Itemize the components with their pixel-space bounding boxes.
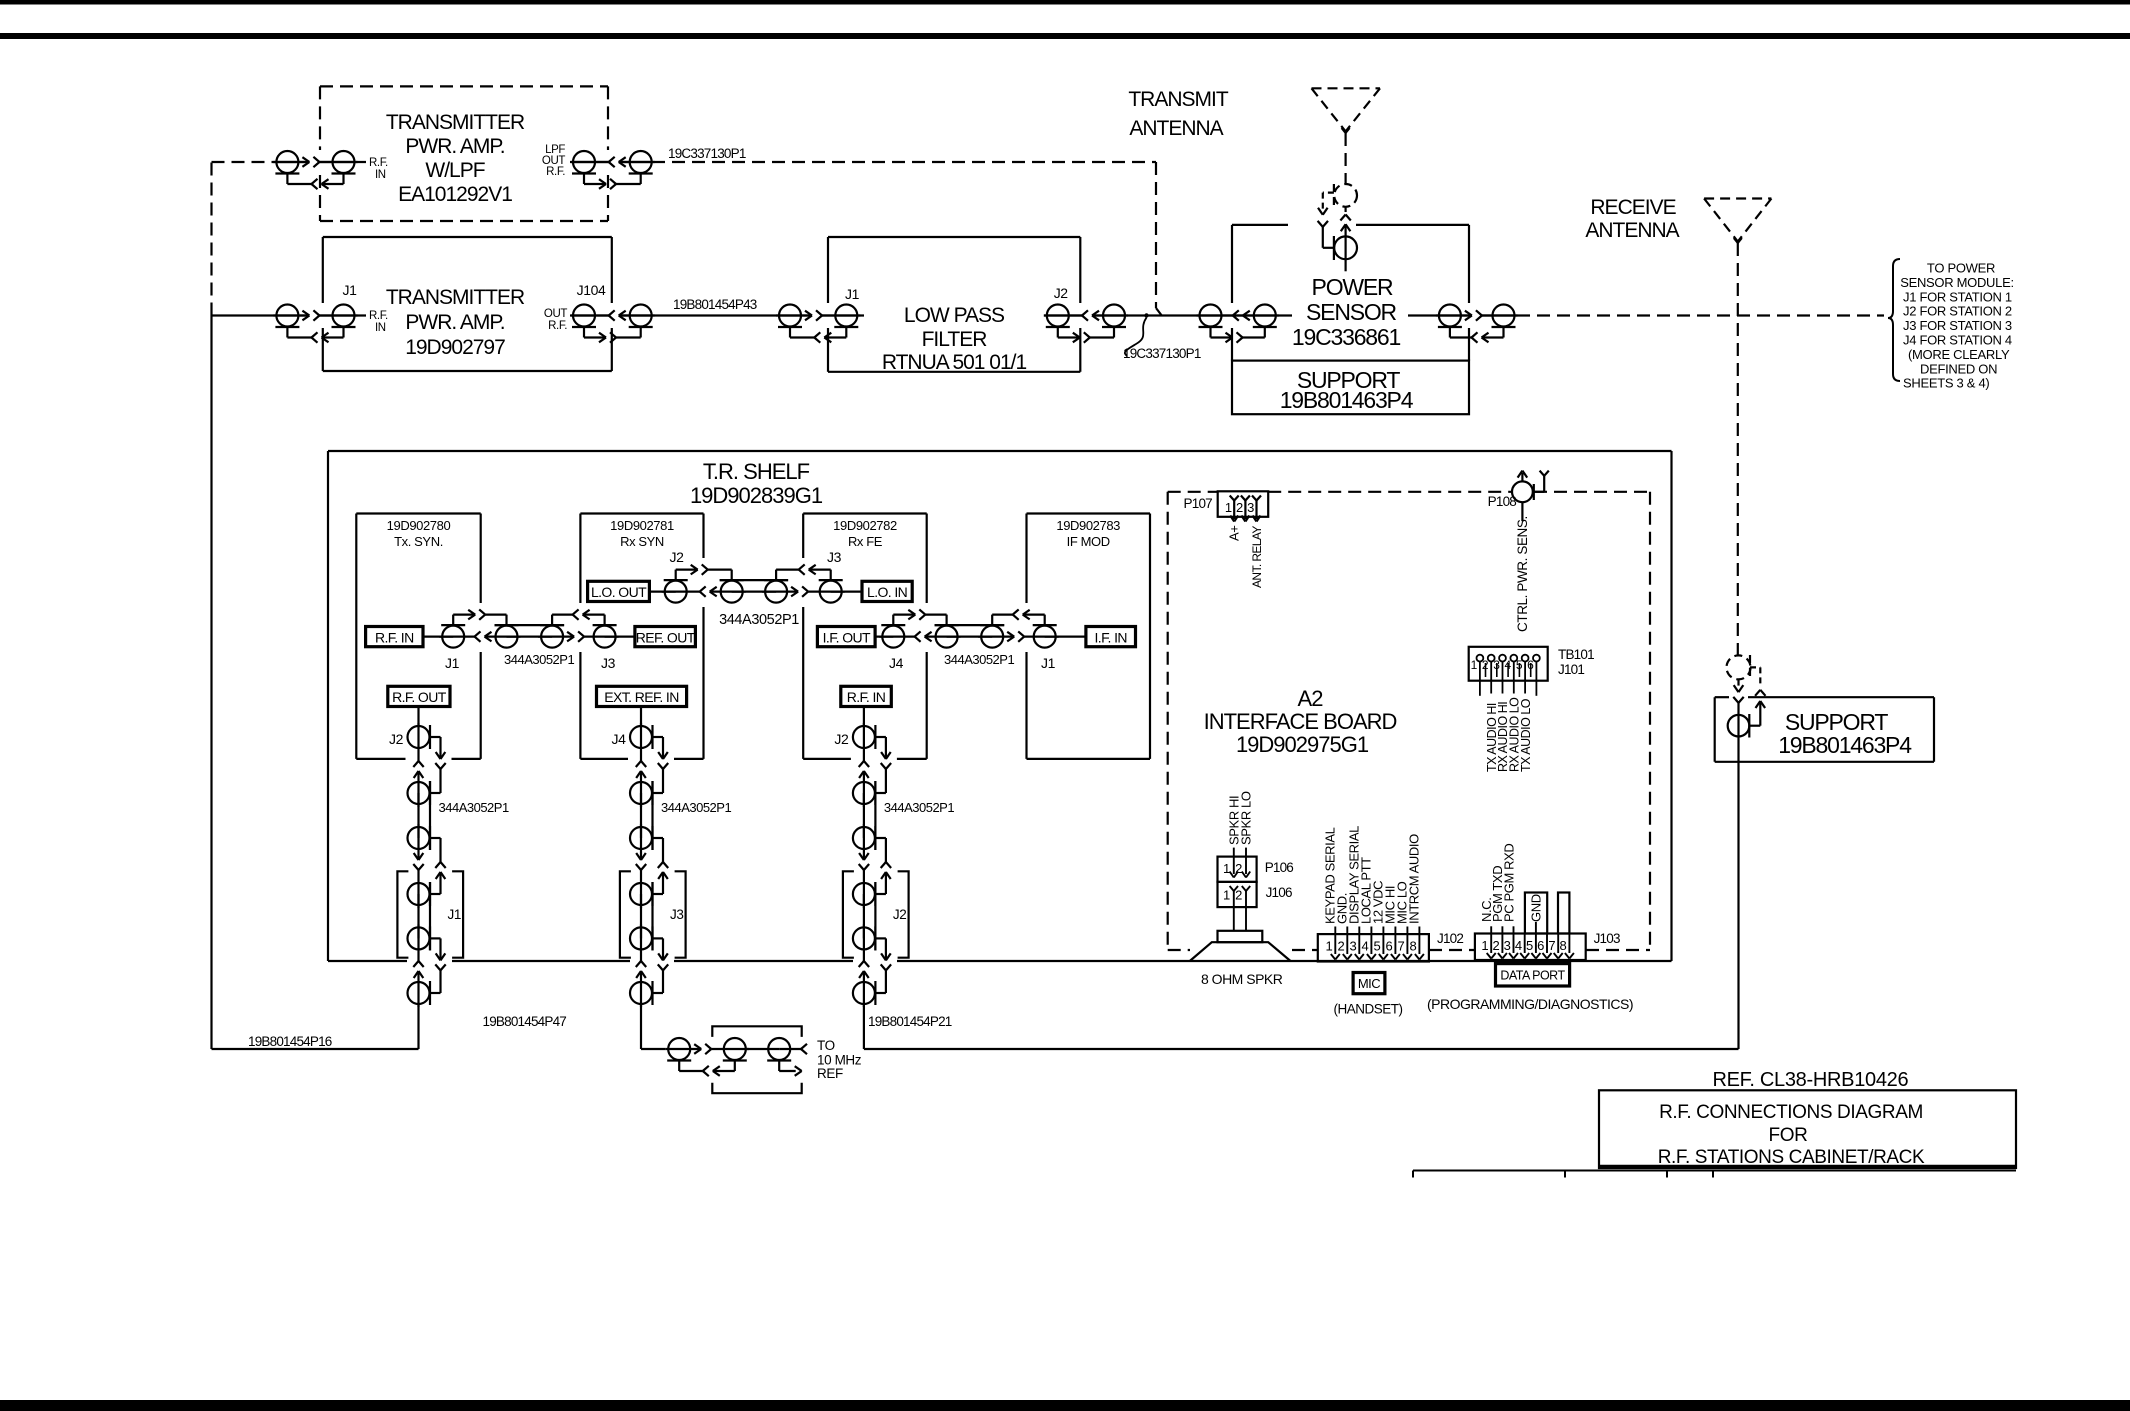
label box L.O. OUT: [588, 581, 650, 601]
connector dashed plug above support: [1727, 655, 1751, 679]
svg-text:19B801454P47: 19B801454P47: [483, 1014, 567, 1029]
svg-text:6: 6: [1386, 939, 1393, 954]
svg-text:R.F. OUT: R.F. OUT: [392, 689, 447, 705]
antenna symbol transmit (dashed): [1312, 87, 1381, 89]
svg-text:2: 2: [1337, 939, 1344, 954]
brace for TO POWER SENSOR MODULE note: [1888, 259, 1900, 381]
connector pair J3 Rx FE LO in: [765, 581, 787, 603]
connector antenna plug (dashed circle): [1334, 184, 1357, 207]
cable 19B801454P43: [619, 314, 812, 316]
svg-text:6: 6: [1537, 938, 1544, 953]
svg-text:R.F. IN: R.F. IN: [847, 689, 886, 705]
svg-text:19B801463P4: 19B801463P4: [1778, 732, 1912, 758]
svg-text:J106: J106: [1266, 885, 1292, 900]
svg-text:1: 1: [1481, 938, 1488, 953]
svg-text:SENSOR: SENSOR: [1306, 299, 1397, 325]
svg-text:TRANSMITTER: TRANSMITTER: [386, 286, 525, 309]
svg-text:REF. OUT: REF. OUT: [636, 629, 696, 645]
bottom border bar: [0, 1400, 2130, 1411]
svg-text:INTRCM AUDIO: INTRCM AUDIO: [1407, 834, 1422, 924]
vertical pair module jack to cable: [630, 782, 652, 804]
svg-text:SENSOR MODULE:: SENSOR MODULE:: [1900, 275, 2014, 290]
wire to external 10MHz plug: [779, 1048, 801, 1050]
wire dashed feed to R.F. IN of dashed box: [212, 161, 278, 163]
svg-text:L.O. OUT: L.O. OUT: [591, 584, 647, 600]
svg-text:J2: J2: [1054, 285, 1069, 301]
bracket 10MHz feed-through top: [712, 1026, 801, 1037]
svg-text:W/LPF: W/LPF: [425, 159, 484, 182]
wire dashed antenna feed: [1344, 133, 1346, 184]
svg-text:344A3052P1: 344A3052P1: [884, 800, 954, 815]
wire LPF J2 to output pair: [1044, 314, 1082, 316]
svg-text:4: 4: [1515, 938, 1522, 953]
svg-text:J4: J4: [612, 731, 627, 747]
box T.R. SHELF 19D902839G1: [328, 450, 1672, 452]
connector pair power sensor input: [1254, 305, 1276, 327]
svg-text:P106: P106: [1265, 860, 1294, 875]
connector J102: [1318, 934, 1429, 961]
wire dashed receive antenna feed: [1737, 243, 1739, 655]
empty shell box pin7: [1558, 893, 1569, 934]
connector power sensor antenna jack: [1334, 236, 1357, 259]
arrow into power sensor connector: [1341, 224, 1346, 231]
svg-text:19C337130P1: 19C337130P1: [668, 146, 746, 161]
return arrow from support jack: [1759, 703, 1761, 726]
svg-text:Tx. SYN.: Tx. SYN.: [394, 534, 443, 549]
frame line under title block: [1413, 1170, 2016, 1172]
svg-text:2: 2: [1235, 861, 1242, 876]
connector pair J104 transmitter output: [630, 305, 652, 327]
vertical pair cable to shelf feedthrough: [408, 827, 430, 849]
cable feed-through internal: [863, 894, 865, 938]
svg-text:A2: A2: [1298, 686, 1324, 711]
svg-text:19D902782: 19D902782: [833, 518, 897, 533]
wire power sensor internal right: [1408, 314, 1472, 316]
connector J106: [1218, 882, 1257, 907]
svg-text:TB101: TB101: [1558, 647, 1594, 662]
svg-text:7: 7: [1398, 939, 1405, 954]
svg-text:R.F.: R.F.: [369, 310, 388, 322]
svg-text:J4 FOR STATION 4: J4 FOR STATION 4: [1903, 333, 2012, 348]
module box 19D902782: [803, 512, 927, 514]
connector P106: [1218, 857, 1257, 882]
cable 344A3052P1 vertical: [863, 793, 865, 838]
box TRANSMITTER PWR. AMP. 19D902797: [323, 236, 612, 238]
svg-text:19D902781: 19D902781: [610, 518, 674, 533]
svg-text:J2: J2: [893, 907, 906, 922]
connector pair J1 Tx SYN: [496, 626, 518, 648]
cable 344A3052P1 vertical: [417, 793, 419, 838]
svg-text:CTRL. PWR. SENS.: CTRL. PWR. SENS.: [1515, 516, 1530, 632]
connector pair J1 transmitter input: [276, 305, 298, 327]
svg-text:19B801463P4: 19B801463P4: [1280, 387, 1414, 413]
cable 344A3052P1 (LO): [732, 590, 776, 592]
connector pair 10MHz cable to feed-through: [668, 1038, 690, 1060]
svg-text:TO POWER: TO POWER: [1927, 261, 1995, 276]
svg-text:J1: J1: [445, 655, 460, 671]
svg-text:EA101292V1: EA101292V1: [398, 183, 512, 206]
wire R.F. IN to J1: [423, 635, 453, 637]
svg-text:R.F. STATIONS CABINET/RACK: R.F. STATIONS CABINET/RACK: [1658, 1147, 1925, 1168]
wire label box to module connector: [640, 707, 642, 727]
svg-text:3: 3: [1349, 939, 1356, 954]
svg-text:8: 8: [1560, 938, 1567, 953]
wire module3 run to support riser: [864, 1048, 1739, 1050]
svg-text:TX AUDIO LO: TX AUDIO LO: [1519, 698, 1533, 772]
svg-text:GND: GND: [1529, 894, 1544, 922]
box POWER SENSOR 19C336861: [1232, 224, 1288, 226]
vertical pair module jack to cable: [408, 782, 430, 804]
svg-text:FOR: FOR: [1769, 1125, 1808, 1146]
svg-text:INTERFACE BOARD: INTERFACE BOARD: [1204, 709, 1397, 734]
GND shell box: [1525, 893, 1547, 934]
cable feed-through internal: [640, 894, 642, 938]
svg-text:2: 2: [1236, 500, 1243, 515]
svg-text:R.F.: R.F.: [369, 157, 388, 169]
connector pair J4 Rx FE: [936, 626, 958, 648]
svg-text:I.F. OUT: I.F. OUT: [823, 629, 871, 645]
svg-text:J1: J1: [1041, 655, 1056, 671]
connector J103: [1475, 934, 1586, 961]
wire external cable down: [863, 1004, 865, 1049]
connector pair R.F. IN dashed box: [277, 161, 309, 163]
svg-text:LOW PASS: LOW PASS: [904, 304, 1005, 327]
svg-text:SHEETS 3 & 4): SHEETS 3 & 4): [1903, 376, 1989, 391]
svg-text:IF MOD: IF MOD: [1067, 534, 1110, 549]
label box L.O. IN: [862, 581, 912, 601]
svg-text:5: 5: [1374, 939, 1381, 954]
header rule bar: [0, 33, 2130, 39]
wire main feed to transmitter R.F. IN: [212, 314, 310, 316]
connector pair J2 Rx SYN LO out: [721, 581, 743, 603]
svg-text:ANTENNA: ANTENNA: [1585, 219, 1679, 242]
svg-text:19D902839G1: 19D902839G1: [690, 483, 823, 508]
wire external cable down: [417, 1004, 419, 1049]
wire J3 to REF. OUT: [605, 635, 635, 637]
dashed box A2 INTERFACE BOARD: [1168, 491, 1218, 493]
svg-text:R.F. CONNECTIONS DIAGRAM: R.F. CONNECTIONS DIAGRAM: [1659, 1102, 1923, 1123]
module box 19D902783: [1027, 512, 1151, 514]
svg-text:ANT. RELAY: ANT. RELAY: [1250, 526, 1264, 588]
svg-text:REF: REF: [817, 1066, 843, 1081]
svg-text:3: 3: [1504, 938, 1511, 953]
svg-text:SPKR LO: SPKR LO: [1239, 791, 1254, 845]
svg-text:1: 1: [1325, 939, 1332, 954]
svg-text:R.F.: R.F.: [548, 320, 567, 332]
svg-text:OUT: OUT: [544, 308, 567, 320]
svg-text:19D902797: 19D902797: [405, 336, 505, 359]
svg-text:MIC: MIC: [1358, 976, 1380, 991]
wire dashed drop to LPF output junction: [1155, 162, 1157, 308]
svg-text:1: 1: [1223, 888, 1230, 903]
mating chevron on antenna main line: [1344, 207, 1346, 212]
svg-text:TRANSMIT: TRANSMIT: [1128, 88, 1229, 111]
svg-text:2: 2: [1235, 888, 1242, 903]
svg-text:2: 2: [1493, 938, 1500, 953]
connector pair J3 Rx SYN ref: [541, 626, 563, 648]
wire external cable down: [640, 1004, 642, 1049]
cable 344A3052P1 (row 1): [507, 635, 553, 637]
vertical pair cable to shelf feedthrough: [853, 827, 875, 849]
svg-text:ANTENNA: ANTENNA: [1129, 117, 1223, 140]
wire J1 to I.F. IN: [1045, 635, 1086, 637]
svg-text:1: 1: [1225, 500, 1232, 515]
connector pair J1 low pass filter input: [779, 305, 801, 327]
label box R.F. IN (module output): [841, 686, 892, 706]
svg-text:19D902780: 19D902780: [387, 518, 451, 533]
svg-text:J2: J2: [670, 549, 685, 565]
svg-text:J1: J1: [448, 907, 461, 922]
svg-text:J103: J103: [1594, 931, 1620, 946]
svg-text:IN: IN: [375, 322, 386, 334]
svg-text:19B801454P43: 19B801454P43: [673, 297, 757, 312]
connector pair J1 IF MOD: [981, 626, 1003, 648]
module box 19D902780: [356, 512, 480, 514]
top border bar: [0, 0, 2130, 5]
svg-text:J1: J1: [343, 282, 358, 298]
connector pair J2 low pass filter output: [1103, 305, 1125, 327]
svg-text:J1 FOR STATION 1: J1 FOR STATION 1: [1903, 289, 2012, 304]
svg-text:8: 8: [1410, 939, 1417, 954]
wire module2 run to 10MHz: [641, 1048, 665, 1050]
svg-text:I.F. IN: I.F. IN: [1095, 629, 1127, 645]
bracket shelf feed-through connector: [397, 871, 408, 957]
bracket 10MHz feed-through bottom: [712, 1083, 801, 1094]
connector P108: [1512, 481, 1533, 502]
wire label box to module connector: [863, 707, 865, 727]
svg-text:J4: J4: [889, 655, 904, 671]
label box REF. OUT: [635, 627, 696, 647]
connector P107 header: [1218, 491, 1269, 517]
svg-text:PWR. AMP.: PWR. AMP.: [405, 311, 504, 334]
wire dashed 19C337130P1 run: [652, 161, 1156, 163]
label box R.F. IN (Tx SYN): [366, 627, 423, 647]
wire J3 to L.O. IN: [831, 590, 862, 592]
box LOW PASS FILTER RTNUA 501 01/1: [828, 236, 1080, 238]
module box 19D902781: [580, 512, 703, 514]
svg-text:J3: J3: [827, 549, 842, 565]
cable 344A3052P1 vertical: [640, 793, 642, 838]
svg-text:J2: J2: [389, 731, 404, 747]
svg-text:(HANDSET): (HANDSET): [1334, 1002, 1403, 1017]
vertical pair module jack to cable: [853, 782, 875, 804]
wire dashed to receive antenna line: [1517, 314, 1884, 316]
label box R.F. OUT (module output): [388, 686, 450, 706]
wire L.O. OUT to J2: [649, 590, 675, 592]
svg-text:RECEIVE: RECEIVE: [1590, 196, 1676, 219]
wire 19B801454P16 loop: [212, 1048, 419, 1050]
cable between 10MHz feedthrough connectors: [745, 1048, 779, 1050]
vertical pair shelf bottom jack to external cable: [408, 982, 430, 1004]
svg-text:19D902975G1: 19D902975G1: [1236, 732, 1369, 757]
svg-text:19B801454P16: 19B801454P16: [248, 1034, 332, 1049]
bracket shelf feed-through connector: [620, 871, 631, 957]
svg-text:7: 7: [1548, 938, 1555, 953]
box DATA PORT: [1496, 964, 1570, 986]
wire I.F. OUT to J4: [875, 635, 893, 637]
svg-text:344A3052P1: 344A3052P1: [439, 800, 509, 815]
svg-text:P107: P107: [1184, 496, 1213, 511]
svg-text:344A3052P1: 344A3052P1: [504, 652, 574, 667]
cable 19C337130P1 to power sensor: [1092, 314, 1243, 316]
svg-text:P108: P108: [1488, 494, 1517, 509]
antenna symbol receive (dashed): [1704, 197, 1771, 199]
svg-text:J3: J3: [670, 907, 683, 922]
dashed box TRANSMITTER PWR. AMP. W/LPF EA101292V1: [320, 85, 608, 87]
wire label box to module connector: [417, 707, 419, 727]
svg-text:344A3052P1: 344A3052P1: [944, 652, 1014, 667]
svg-text:19D902783: 19D902783: [1056, 518, 1120, 533]
return hook H to external: [779, 1070, 796, 1072]
svg-text:IN: IN: [375, 169, 386, 181]
svg-text:1: 1: [1223, 861, 1230, 876]
cable 344A3052P1 (IF row): [947, 635, 993, 637]
box MIC: [1353, 973, 1385, 994]
connector support jack circle: [1728, 715, 1750, 737]
svg-text:REF. CL38-HRB10426: REF. CL38-HRB10426: [1713, 1069, 1909, 1091]
svg-text:Rx FE: Rx FE: [848, 534, 883, 549]
connector pair LPF OUT dashed box: [630, 151, 652, 173]
vertical pair shelf bottom jack to external cable: [853, 982, 875, 1004]
svg-text:TRANSMITTER: TRANSMITTER: [386, 111, 525, 134]
svg-text:344A3052P1: 344A3052P1: [719, 612, 799, 628]
svg-text:R.F.: R.F.: [546, 166, 565, 178]
svg-text:19B801454P21: 19B801454P21: [868, 1014, 952, 1029]
svg-text:19C337130P1: 19C337130P1: [1123, 346, 1201, 361]
svg-text:J3 FOR STATION 3: J3 FOR STATION 3: [1903, 318, 2012, 333]
svg-text:4: 4: [1362, 939, 1369, 954]
svg-text:DEFINED ON: DEFINED ON: [1920, 361, 1997, 376]
title box: [1599, 1090, 2016, 1168]
label box I.F. IN: [1086, 627, 1136, 647]
box SUPPORT 19B801463P4 (left): [1232, 361, 1469, 415]
svg-text:Rx SYN: Rx SYN: [620, 534, 664, 549]
svg-text:8 OHM SPKR: 8 OHM SPKR: [1201, 971, 1283, 987]
receptacle chevron for antenna return: [1318, 221, 1323, 227]
label box EXT. REF. IN (module output): [597, 686, 687, 706]
wire dashed left riser to EA101292V1: [210, 162, 212, 316]
svg-text:(MORE CLEARLY: (MORE CLEARLY: [1908, 347, 2010, 362]
bracket shelf feed-through connector: [843, 871, 854, 957]
arrow dashed into support: [1737, 680, 1739, 687]
connector TB101 J101: [1469, 647, 1548, 681]
svg-text:RTNUA 501 01/1: RTNUA 501 01/1: [882, 351, 1027, 374]
svg-text:R.F. IN: R.F. IN: [375, 629, 414, 645]
svg-text:T.R. SHELF: T.R. SHELF: [703, 459, 810, 484]
cable feed-through internal: [417, 894, 419, 938]
svg-text:A+: A+: [1227, 526, 1242, 541]
svg-text:DATA PORT: DATA PORT: [1500, 969, 1565, 983]
svg-text:1: 1: [1471, 658, 1478, 672]
svg-text:TO: TO: [817, 1038, 835, 1053]
svg-text:L.O. IN: L.O. IN: [867, 584, 907, 600]
svg-text:J104: J104: [577, 282, 606, 298]
feed-through connector H: [768, 1038, 790, 1060]
svg-text:5: 5: [1526, 938, 1533, 953]
svg-text:19C336861: 19C336861: [1292, 324, 1401, 350]
vertical pair shelf bottom jack to external cable: [630, 982, 652, 1004]
svg-text:J2: J2: [834, 731, 849, 747]
junction dot: [1144, 313, 1148, 317]
leader curve to junction: [1125, 318, 1147, 357]
vertical pair cable to shelf feedthrough: [630, 827, 652, 849]
svg-text:J102: J102: [1437, 931, 1463, 946]
receptacle chevron support jack: [1733, 697, 1738, 703]
svg-text:J2 FOR STATION 2: J2 FOR STATION 2: [1903, 304, 2012, 319]
svg-text:3: 3: [1247, 500, 1254, 515]
label box I.F. OUT: [817, 627, 875, 647]
svg-text:J101: J101: [1558, 662, 1584, 677]
svg-text:344A3052P1: 344A3052P1: [661, 800, 731, 815]
speaker symbol: [1218, 931, 1263, 942]
svg-text:PWR. AMP.: PWR. AMP.: [405, 135, 504, 158]
svg-text:J1: J1: [845, 286, 860, 302]
connector pair power sensor output: [1439, 305, 1461, 327]
svg-text:EXT. REF. IN: EXT. REF. IN: [604, 689, 678, 705]
box SUPPORT 19B801463P4 (right): [1715, 696, 1729, 698]
svg-text:(PROGRAMMING/DIAGNOSTICS): (PROGRAMMING/DIAGNOSTICS): [1427, 996, 1633, 1012]
svg-text:FILTER: FILTER: [922, 328, 988, 351]
svg-text:PC PGM RXD: PC PGM RXD: [1501, 844, 1516, 922]
svg-text:J3: J3: [601, 655, 616, 671]
wire P108 to board: [1521, 502, 1523, 521]
svg-text:POWER: POWER: [1312, 274, 1393, 300]
